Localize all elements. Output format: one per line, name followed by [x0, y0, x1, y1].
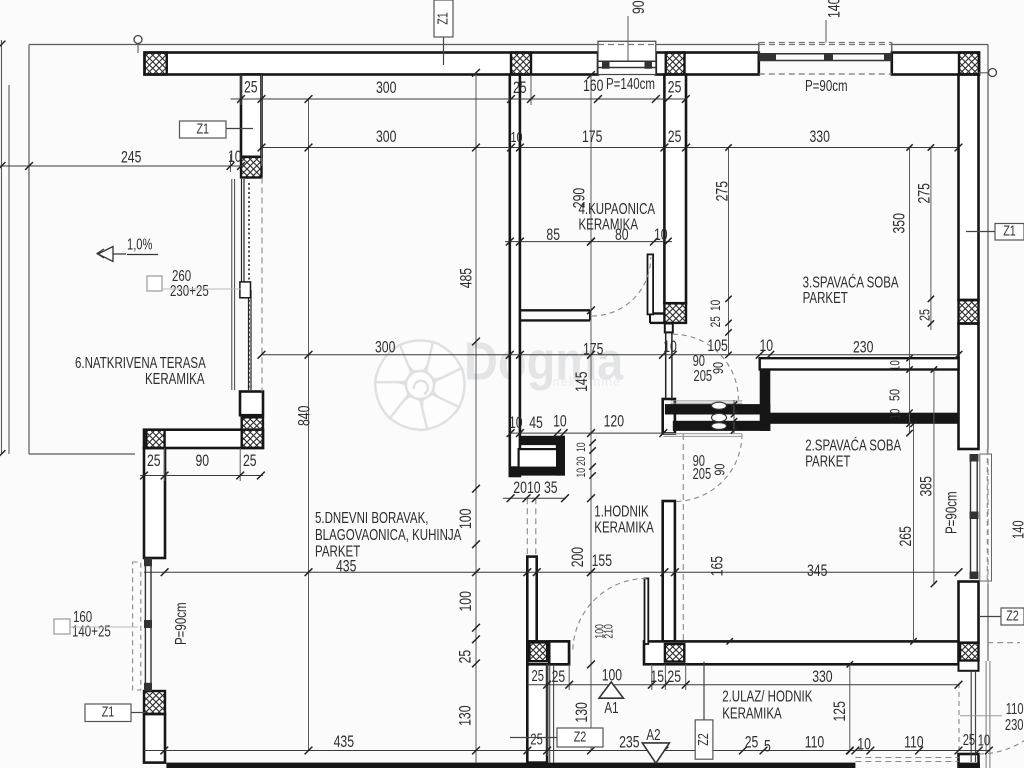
- svg-text:10: 10: [760, 337, 774, 355]
- svg-text:200: 200: [569, 547, 587, 567]
- svg-text:155: 155: [592, 552, 612, 570]
- svg-text:205: 205: [693, 465, 712, 482]
- svg-text:20: 20: [576, 456, 589, 466]
- svg-text:230: 230: [853, 339, 873, 357]
- svg-text:385: 385: [918, 476, 936, 496]
- svg-text:35: 35: [544, 479, 558, 497]
- svg-text:90: 90: [711, 464, 728, 476]
- svg-text:110: 110: [805, 734, 824, 752]
- svg-text:10: 10: [888, 408, 903, 419]
- svg-text:25: 25: [745, 734, 759, 752]
- svg-text:5: 5: [764, 738, 771, 756]
- svg-text:25: 25: [530, 731, 542, 748]
- svg-text:175: 175: [582, 128, 602, 146]
- svg-text:25: 25: [552, 668, 566, 686]
- svg-text:P=90cm: P=90cm: [942, 491, 960, 534]
- svg-text:120: 120: [604, 413, 624, 431]
- svg-text:235: 235: [619, 734, 639, 752]
- svg-text:25: 25: [457, 650, 475, 664]
- svg-text:25: 25: [963, 731, 975, 748]
- svg-text:10: 10: [576, 468, 589, 478]
- svg-text:25: 25: [532, 667, 544, 684]
- svg-text:10: 10: [527, 479, 541, 497]
- svg-text:Z2: Z2: [574, 728, 587, 745]
- svg-text:A2: A2: [646, 725, 660, 743]
- svg-text:Z1: Z1: [1003, 222, 1016, 239]
- svg-text:10: 10: [654, 226, 668, 244]
- svg-text:300: 300: [376, 79, 396, 97]
- svg-text:10: 10: [511, 128, 523, 145]
- svg-text:Z2: Z2: [1006, 607, 1019, 624]
- svg-text:90: 90: [630, 0, 648, 14]
- svg-text:50: 50: [886, 389, 903, 401]
- svg-text:330: 330: [812, 668, 832, 686]
- svg-text:25: 25: [707, 316, 723, 327]
- svg-text:275: 275: [916, 183, 934, 203]
- svg-text:2.ULAZ/ HODNIK: 2.ULAZ/ HODNIK: [722, 687, 813, 705]
- svg-text:45: 45: [529, 414, 543, 432]
- svg-text:P=90cm: P=90cm: [171, 602, 189, 645]
- svg-text:10: 10: [553, 413, 567, 431]
- svg-text:5.DNEVNI BORAVAK,: 5.DNEVNI BORAVAK,: [315, 508, 429, 526]
- svg-text:840: 840: [296, 406, 314, 426]
- svg-text:110: 110: [904, 734, 923, 752]
- svg-text:350: 350: [891, 213, 909, 233]
- svg-text:25: 25: [668, 79, 682, 97]
- svg-text:90: 90: [709, 362, 726, 374]
- svg-text:230: 230: [1005, 716, 1024, 733]
- svg-text:KERAMIKA: KERAMIKA: [722, 704, 782, 722]
- svg-text:175: 175: [583, 341, 603, 359]
- svg-text:85: 85: [546, 226, 560, 244]
- svg-text:435: 435: [334, 733, 354, 751]
- svg-text:P=140cm: P=140cm: [606, 74, 655, 92]
- svg-text:KERAMIKA: KERAMIKA: [579, 215, 639, 233]
- svg-text:25: 25: [668, 128, 682, 146]
- svg-text:130: 130: [457, 705, 475, 725]
- svg-text:A1: A1: [604, 698, 618, 716]
- svg-text:10: 10: [857, 736, 871, 754]
- svg-text:230+25: 230+25: [170, 281, 209, 299]
- svg-text:PARKET: PARKET: [315, 542, 361, 560]
- svg-text:P=90cm: P=90cm: [805, 76, 848, 94]
- svg-text:Z1: Z1: [196, 120, 209, 137]
- svg-text:210: 210: [603, 624, 616, 639]
- svg-text:Z2: Z2: [694, 733, 711, 746]
- svg-text:145: 145: [573, 371, 591, 391]
- svg-text:10: 10: [663, 338, 677, 356]
- svg-text:KERAMIKA: KERAMIKA: [594, 518, 654, 536]
- svg-text:165: 165: [709, 556, 727, 576]
- svg-text:25: 25: [244, 79, 258, 97]
- svg-text:265: 265: [897, 526, 915, 546]
- svg-text:PARKET: PARKET: [803, 288, 849, 306]
- svg-text:25: 25: [243, 452, 257, 470]
- svg-text:1,0%: 1,0%: [127, 236, 152, 253]
- svg-text:10: 10: [509, 414, 523, 432]
- svg-text:Z1: Z1: [102, 703, 115, 720]
- svg-text:100: 100: [457, 591, 475, 611]
- svg-text:345: 345: [807, 562, 827, 580]
- svg-text:20: 20: [513, 479, 527, 497]
- svg-text:KERAMIKA: KERAMIKA: [145, 369, 205, 387]
- svg-text:90: 90: [196, 452, 210, 470]
- svg-text:25: 25: [513, 79, 527, 97]
- svg-text:485: 485: [458, 268, 476, 288]
- svg-text:25: 25: [916, 309, 933, 321]
- svg-text:10: 10: [707, 300, 723, 311]
- svg-text:10: 10: [576, 442, 589, 452]
- svg-text:275: 275: [714, 181, 732, 201]
- svg-text:10: 10: [228, 148, 242, 166]
- svg-text:140+25: 140+25: [72, 622, 111, 640]
- svg-text:160: 160: [583, 77, 603, 95]
- svg-text:25: 25: [147, 452, 161, 470]
- svg-text:125: 125: [831, 701, 849, 721]
- svg-text:140: 140: [1010, 520, 1024, 539]
- svg-text:10: 10: [978, 732, 990, 749]
- svg-text:15,25: 15,25: [650, 668, 681, 686]
- svg-text:245: 245: [121, 149, 141, 167]
- svg-text:105: 105: [707, 337, 727, 355]
- svg-text:130: 130: [573, 702, 591, 722]
- svg-text:Z1: Z1: [434, 12, 451, 25]
- svg-text:PARKET: PARKET: [805, 452, 851, 470]
- svg-text:330: 330: [810, 128, 830, 146]
- svg-text:300: 300: [376, 128, 396, 146]
- svg-text:300: 300: [375, 339, 395, 357]
- svg-text:10: 10: [888, 360, 903, 371]
- svg-text:435: 435: [336, 558, 356, 576]
- svg-text:140: 140: [826, 0, 844, 18]
- svg-text:110: 110: [1006, 700, 1024, 717]
